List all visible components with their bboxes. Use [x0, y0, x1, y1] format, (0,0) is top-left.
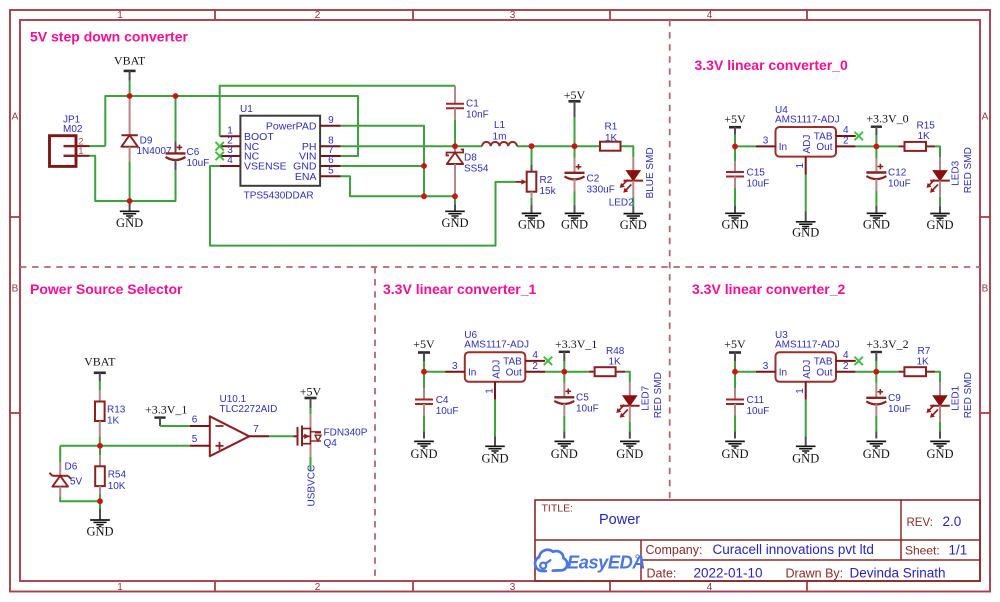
svg-text:1: 1 [795, 388, 806, 394]
wire JP1 pin1 to ground rail [90, 156, 176, 201]
svg-text:RED SMD: RED SMD [653, 372, 664, 418]
capacitor C1 10nF [446, 86, 489, 147]
svg-text:2022-01-10: 2022-01-10 [694, 565, 763, 580]
zener diode D6 5V [49, 446, 100, 501]
power flag +5V (section 1) [564, 88, 586, 146]
junction dot [732, 144, 738, 150]
svg-text:TAB: TAB [814, 356, 833, 367]
connector JP1 [50, 115, 90, 167]
junction dot [127, 198, 133, 204]
svg-text:C4: C4 [436, 395, 449, 406]
svg-text:SS54: SS54 [464, 163, 489, 174]
svg-text:BLUE SMD: BLUE SMD [645, 147, 656, 198]
regulator U3 AMS1117-ADJ [756, 330, 863, 400]
svg-text:4: 4 [843, 125, 849, 136]
ground under LED7 [620, 440, 640, 442]
svg-text:10uF: 10uF [436, 406, 459, 417]
svg-text:GND: GND [481, 451, 508, 465]
wire BOOT to C1 [220, 86, 455, 137]
svg-text:C6: C6 [187, 147, 200, 158]
svg-text:10uF: 10uF [888, 404, 911, 415]
svg-text:D6: D6 [65, 462, 78, 473]
power flag +3.3V_1 (selector) [145, 402, 187, 426]
svg-text:2: 2 [532, 361, 538, 372]
EasyEDA logo [535, 550, 645, 573]
svg-text:6: 6 [192, 415, 198, 426]
svg-text:C15: C15 [747, 167, 766, 178]
svg-text:+5V: +5V [564, 88, 586, 102]
svg-text:1K: 1K [605, 133, 618, 144]
ground under C2 [565, 212, 585, 214]
svg-text:4: 4 [707, 582, 713, 593]
svg-text:15k: 15k [540, 186, 557, 197]
svg-text:3.3V linear converter_2: 3.3V linear converter_2 [692, 281, 846, 297]
svg-text:+5V: +5V [724, 337, 746, 351]
svg-text:+3.3V_1: +3.3V_1 [145, 402, 187, 416]
svg-text:3.3V linear converter_0: 3.3V linear converter_0 [695, 57, 849, 73]
svg-text:GND: GND [620, 218, 647, 232]
wire Q4 source to USBVCC [310, 457, 312, 471]
junction dot [452, 143, 458, 149]
svg-text:1N4007: 1N4007 [137, 146, 172, 157]
power flag +3.3V_2 [866, 337, 908, 372]
svg-text:FDN340P: FDN340P [324, 427, 368, 438]
svg-text:In: In [779, 367, 787, 378]
svg-text:LED2: LED2 [609, 197, 634, 208]
power flag +5V (selector) [300, 385, 322, 415]
regulator U4 AMS1117-ADJ [756, 105, 863, 175]
junction dot [572, 143, 578, 149]
svg-text:TAB: TAB [814, 131, 833, 142]
ground under LED1 [930, 440, 950, 442]
svg-text:TLC2272AID: TLC2272AID [220, 404, 278, 415]
svg-text:+3.3V_0: +3.3V_0 [866, 112, 908, 126]
wire U6 Out to +3.3V_1 [545, 371, 564, 373]
svg-text:B: B [12, 284, 19, 295]
svg-text:R54: R54 [108, 470, 127, 481]
power flag VBAT (selector) [84, 355, 116, 390]
svg-text:VSENSE: VSENSE [244, 161, 287, 173]
svg-text:1/1: 1/1 [949, 542, 968, 557]
junction dot [874, 144, 880, 150]
wire VSENSE feedback to R2 wiper [210, 166, 527, 246]
ground under R2 [522, 212, 542, 214]
title block [535, 500, 980, 581]
svg-text:10uF: 10uF [187, 158, 210, 169]
ground under R54 [99, 501, 101, 509]
svg-text:Date:: Date: [647, 566, 677, 580]
svg-text:AMS1117-ADJ: AMS1117-ADJ [775, 340, 840, 351]
svg-text:330uF: 330uF [587, 185, 615, 196]
svg-text:+5V: +5V [413, 337, 435, 351]
svg-text:4: 4 [843, 350, 849, 361]
svg-text:C9: C9 [888, 393, 901, 404]
svg-text:GND: GND [792, 225, 819, 239]
svg-text:+3.3V_2: +3.3V_2 [866, 337, 908, 351]
ground under LED3 [930, 213, 950, 215]
svg-text:1: 1 [117, 10, 123, 21]
svg-text:4: 4 [532, 350, 538, 361]
svg-text:LED1: LED1 [951, 385, 962, 410]
resistor R48 1K [564, 346, 630, 382]
svg-text:2: 2 [315, 582, 321, 593]
svg-text:GND: GND [721, 447, 748, 461]
svg-text:C12: C12 [888, 168, 907, 179]
svg-text:VBAT: VBAT [114, 53, 146, 67]
svg-text:GND: GND [926, 447, 953, 461]
svg-text:3.3V linear converter_1: 3.3V linear converter_1 [383, 281, 537, 297]
capacitor C4 10uF [415, 372, 458, 439]
svg-text:USBVCC: USBVCC [306, 465, 317, 507]
MOSFET Q4 FDN340P [298, 414, 368, 457]
svg-text:10nF: 10nF [466, 110, 489, 121]
svg-text:U1: U1 [240, 104, 253, 115]
svg-text:1: 1 [485, 388, 496, 394]
power flag +5V (converter_1) [413, 337, 435, 372]
junction dot [421, 193, 427, 199]
svg-text:1: 1 [117, 582, 123, 593]
inductor L1 1m [482, 120, 517, 146]
U1 left pins 1-4 [216, 125, 287, 172]
ground under D8 [454, 196, 456, 204]
junction dot [97, 498, 103, 504]
capacitor C12 10uF [866, 146, 910, 213]
junction dot [452, 193, 458, 199]
svg-text:GND: GND [518, 218, 545, 232]
diode D8 SS54 schottky [447, 146, 489, 196]
svg-text:GND: GND [410, 447, 437, 461]
svg-text:9: 9 [328, 115, 334, 126]
svg-text:TITLE:: TITLE: [542, 503, 574, 515]
svg-text:LED3: LED3 [951, 160, 962, 185]
potentiometer R2 15k [527, 146, 557, 213]
svg-text:B: B [982, 284, 989, 295]
op-amp U1 TPS5430DDAR body [240, 104, 320, 201]
svg-text:2: 2 [315, 10, 321, 21]
svg-text:10uF: 10uF [888, 179, 911, 190]
ground under D9 [129, 201, 131, 211]
svg-text:Sheet:: Sheet: [905, 543, 940, 557]
svg-text:GND: GND [551, 447, 578, 461]
svg-text:3: 3 [510, 10, 516, 21]
capacitor C9 10uF [866, 372, 910, 439]
svg-text:EasyEDA: EasyEDA [567, 552, 645, 572]
LED1 red [927, 372, 975, 439]
resistor R54 10K [95, 446, 126, 501]
ground under C12 [867, 212, 887, 214]
ground under C5 [555, 440, 575, 442]
svg-text:RED SMD: RED SMD [963, 147, 974, 193]
svg-text:Devinda Srinath: Devinda Srinath [850, 565, 946, 580]
regulator U6 AMS1117-ADJ [445, 330, 552, 400]
svg-text:2: 2 [843, 136, 849, 147]
svg-text:+5V: +5V [300, 385, 322, 399]
svg-text:1K: 1K [107, 416, 120, 427]
svg-text:GND: GND [561, 218, 588, 232]
svg-text:10uF: 10uF [747, 178, 770, 189]
svg-text:5V: 5V [70, 477, 83, 488]
wire PowerPAD-GND-ENA net [341, 126, 455, 197]
wire U3 Out to +3.3V_2 [856, 371, 877, 373]
svg-text:A: A [12, 112, 19, 123]
ground under C11 [725, 440, 745, 442]
svg-text:TPS5430DDAR: TPS5430DDAR [244, 190, 314, 201]
svg-text:Out: Out [816, 367, 832, 378]
svg-text:GND: GND [616, 447, 643, 461]
ground under U4 ADJ [805, 175, 807, 212]
svg-text:Power: Power [599, 512, 640, 528]
LED2 blue [609, 147, 656, 213]
power flag +5V (converter_0) [724, 112, 746, 146]
svg-text:GND: GND [792, 451, 819, 465]
ground under LED2 [624, 213, 644, 215]
svg-text:2: 2 [843, 361, 849, 372]
LED3 red [927, 147, 975, 213]
power flag +3.3V_1 (converter_1) [555, 337, 597, 372]
svg-text:+3.3V_1: +3.3V_1 [555, 337, 597, 351]
svg-text:Drawn By:: Drawn By: [786, 566, 844, 580]
svg-text:10uF: 10uF [576, 404, 599, 415]
svg-text:4: 4 [707, 10, 713, 21]
ground under U3 ADJ [805, 400, 807, 437]
power flag VBAT [114, 53, 146, 96]
svg-text:ENA: ENA [295, 171, 317, 183]
power flag +5V (converter_2) [724, 337, 746, 372]
junction dot [873, 369, 879, 375]
svg-text:A: A [982, 112, 989, 123]
svg-text:TAB: TAB [503, 356, 522, 367]
svg-text:ADJ: ADJ [491, 360, 502, 379]
wire +5V to U4 In [735, 145, 756, 147]
svg-text:1K: 1K [917, 356, 930, 367]
svg-text:M02: M02 [63, 124, 83, 135]
svg-text:5: 5 [328, 166, 334, 177]
wire +5V to U3 In [735, 371, 756, 373]
svg-text:R2: R2 [540, 175, 553, 186]
junction dot [127, 93, 133, 99]
junction dot [421, 369, 427, 375]
svg-text:GND: GND [441, 216, 468, 230]
capacitor C5 10uF [554, 372, 598, 439]
svg-text:Out: Out [816, 142, 832, 153]
svg-text:L1: L1 [494, 120, 506, 131]
svg-text:1m: 1m [493, 132, 507, 143]
ground under U6 ADJ [494, 400, 496, 437]
svg-text:In: In [779, 142, 787, 153]
junction dot [561, 369, 567, 375]
svg-text:Company:: Company: [646, 543, 703, 557]
svg-text:In: In [468, 367, 476, 378]
svg-text:REV:: REV: [907, 517, 933, 529]
svg-text:AMS1117-ADJ: AMS1117-ADJ [775, 115, 840, 126]
svg-text:5: 5 [192, 434, 198, 445]
svg-text:1K: 1K [609, 356, 622, 367]
svg-text:1: 1 [78, 146, 83, 157]
svg-text:1K: 1K [918, 131, 931, 142]
svg-text:LED7: LED7 [640, 385, 651, 410]
svg-text:C5: C5 [576, 393, 589, 404]
junction dot [173, 93, 179, 99]
svg-text:R1: R1 [605, 122, 618, 133]
svg-text:Power Source Selector: Power Source Selector [30, 281, 183, 297]
capacitor C11 10uF [726, 372, 769, 439]
svg-text:GND: GND [863, 447, 890, 461]
svg-text:3: 3 [510, 582, 516, 593]
svg-text:R48: R48 [606, 346, 625, 357]
U1 right pins 5-9 [266, 115, 341, 183]
resistor R15 1K [876, 121, 940, 158]
LED7 red [616, 372, 664, 439]
svg-text:+5V: +5V [724, 112, 746, 126]
svg-text:GND: GND [86, 525, 113, 539]
svg-text:10uF: 10uF [747, 406, 770, 417]
svg-text:ADJ: ADJ [802, 360, 813, 379]
wire +3.3V_1 to op-amp -input [160, 425, 190, 427]
svg-text:VBAT: VBAT [84, 355, 116, 369]
power flag +3.3V_0 [866, 112, 908, 147]
svg-text:Curacell innovations pvt ltd: Curacell innovations pvt ltd [713, 542, 874, 557]
svg-text:RED SMD: RED SMD [963, 372, 974, 418]
svg-text:GND: GND [116, 216, 143, 230]
ground under C9 [867, 440, 887, 442]
wire +5V to U6 In [424, 371, 445, 373]
svg-text:GND: GND [926, 218, 953, 232]
svg-text:Out: Out [506, 367, 522, 378]
svg-text:2.0: 2.0 [943, 514, 962, 529]
capacitor C2 330uF [565, 146, 615, 213]
svg-text:3: 3 [452, 361, 458, 372]
junction dot [732, 369, 738, 375]
svg-text:1: 1 [795, 163, 806, 169]
svg-text:C2: C2 [587, 174, 600, 185]
svg-text:7: 7 [253, 424, 259, 435]
resistor R1 1K [600, 122, 621, 151]
svg-text:3: 3 [763, 361, 769, 372]
wire VBAT rail [90, 96, 358, 156]
svg-text:C1: C1 [466, 99, 479, 110]
svg-text:R13: R13 [107, 405, 126, 416]
wire U4 Out to +3.3V_0 [856, 145, 877, 147]
svg-text:GND: GND [863, 218, 890, 232]
resistor R7 1K [876, 346, 940, 382]
ground under C4 [414, 440, 434, 442]
svg-text:R15: R15 [917, 121, 936, 132]
wire PH output rail [341, 146, 634, 157]
svg-text:4: 4 [227, 155, 233, 166]
svg-text:10K: 10K [108, 481, 126, 492]
svg-text:AMS1117-ADJ: AMS1117-ADJ [464, 340, 529, 351]
svg-text:3: 3 [763, 136, 769, 147]
capacitor C15 10uF [726, 146, 769, 213]
resistor R13 1K [95, 390, 126, 446]
svg-text:ADJ: ADJ [802, 135, 813, 154]
diode D9 1N4007 [121, 96, 172, 201]
wire op-amp output to Q4 gate [269, 435, 297, 437]
wire divider node to op-amp +input [60, 445, 190, 447]
op-amp U10.1 TLC2272AID [190, 394, 277, 456]
svg-text:C11: C11 [747, 395, 765, 406]
ground under C15 [725, 212, 745, 214]
svg-text:5V step down converter: 5V step down converter [30, 29, 188, 45]
svg-text:GND: GND [721, 218, 748, 232]
junction dot [97, 443, 103, 449]
svg-text:Q4: Q4 [324, 438, 338, 449]
svg-text:D8: D8 [464, 152, 477, 163]
junction dot [529, 143, 535, 149]
capacitor C6 10uF [166, 96, 210, 170]
junction dot [421, 163, 427, 169]
svg-text:PowerPAD: PowerPAD [266, 120, 317, 132]
